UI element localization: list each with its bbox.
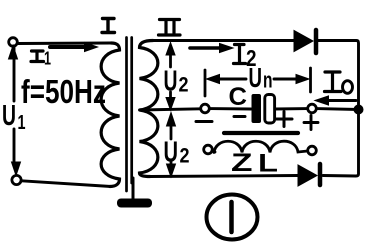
polarity plus sign below right terminal <box>304 116 318 130</box>
transformer core line 2 <box>130 38 133 184</box>
wire: secondary top to diode D1 <box>153 39 294 42</box>
Un measurement left arrow (points left) <box>210 78 246 81</box>
svg-text:f=50Hz: f=50Hz <box>21 73 106 110</box>
wire: capacitor right plate to right terminal <box>275 107 308 110</box>
polarity minus sign below left terminal <box>196 120 212 123</box>
Un measurement right tick <box>309 68 312 92</box>
capacitor C plate (filled, negative) <box>252 94 262 123</box>
svg-text:1: 1 <box>44 49 51 69</box>
label I (primary winding, roman numeral) <box>102 19 115 33</box>
transformer core line 1 <box>125 38 128 192</box>
wire: capacitor right terminal to right edge junction <box>317 107 359 111</box>
label I1 (primary current, serif I) <box>31 51 44 62</box>
label I0 subscript o <box>343 81 353 94</box>
wire: capacitor left terminal to plate <box>210 107 252 110</box>
Un measurement right arrow (points right) <box>274 78 305 81</box>
node: ZL left terminal <box>204 145 213 154</box>
node: capacitor right terminal <box>308 104 317 113</box>
wire: diode D1 to right edge, down right side <box>318 41 359 177</box>
svg-text:U: U <box>249 62 263 93</box>
svg-text:2: 2 <box>180 145 190 168</box>
wire: secondary bottom to diode D2 <box>150 176 298 177</box>
svg-text:n: n <box>263 68 273 93</box>
load inductor ZL winding <box>214 141 308 152</box>
polarity minus sign left of plate <box>234 115 245 118</box>
wire: center tap to capacitor left terminal <box>140 109 201 110</box>
node: bottom-left input terminal <box>12 175 21 184</box>
svg-text:U: U <box>2 100 16 132</box>
voltage arrow U2 lower (between center tap and bottom wire) <box>167 113 176 127</box>
svg-text:U: U <box>164 66 178 98</box>
capacitor C plate (outlined, positive) <box>265 95 275 124</box>
ground bar <box>117 199 152 208</box>
node: capacitor left terminal <box>201 104 210 113</box>
svg-text:L: L <box>258 150 278 178</box>
current arrow I1 on top wire <box>50 45 86 49</box>
polarity plus sign right of plate <box>277 112 293 127</box>
wire: top-left horizontal (terminal to primary winding) <box>18 42 111 45</box>
wire: bottom-left horizontal (terminal to primary winding) <box>22 181 112 187</box>
diode D2 (bottom rectifier) <box>298 165 317 186</box>
svg-text:2: 2 <box>179 74 189 97</box>
wire: left vertical lower segment <box>13 129 16 162</box>
label I0 (load current, serif I) <box>325 72 342 92</box>
node: ZL right terminal <box>308 146 317 155</box>
node: top-left input terminal <box>9 38 18 47</box>
figure number: circled I <box>207 195 258 240</box>
svg-text:U: U <box>164 137 179 169</box>
transformer secondary winding <box>140 41 158 177</box>
svg-text:C: C <box>229 83 248 111</box>
diode D1 (top rectifier) <box>294 31 313 52</box>
node: junction dot on right edge <box>354 105 364 115</box>
voltage arrow U2 upper (between top wire and center tap) <box>166 43 175 56</box>
load inductor ZL core bar <box>224 131 298 135</box>
Un measurement left tick <box>204 70 207 96</box>
ground stem <box>132 178 135 199</box>
voltage arrow U1 lower head (points down) <box>12 162 21 176</box>
current arrow I2 below top wire <box>190 46 220 50</box>
voltage arrow U1 upper head (points up) <box>9 46 18 60</box>
svg-text:Z: Z <box>231 149 253 177</box>
current arrow I0 (points left) <box>326 99 356 102</box>
transformer primary winding <box>101 43 119 187</box>
label II (secondary winding, roman numeral) <box>159 20 181 36</box>
label I2 (secondary current, serif I) <box>234 45 246 64</box>
svg-text:1: 1 <box>18 112 26 134</box>
wire: left vertical upper segment <box>13 46 16 101</box>
